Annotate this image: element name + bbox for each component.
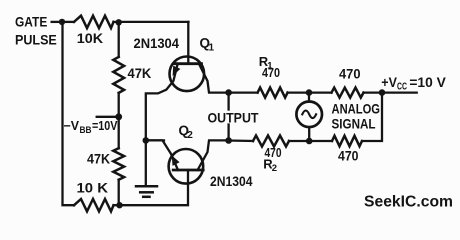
node -Vbb tap <box>115 113 122 120</box>
svg-text:=10 V: =10 V <box>409 74 446 90</box>
node Vcc <box>379 89 386 96</box>
resistor 47K upper <box>113 57 124 93</box>
svg-text:470: 470 <box>265 145 282 160</box>
svg-text:2N1304: 2N1304 <box>134 36 180 51</box>
wire source bottom lead <box>308 127 310 141</box>
wire Q2 emitter horizontal <box>146 139 164 141</box>
node source bottom <box>306 138 313 145</box>
svg-text:BB: BB <box>80 125 92 135</box>
wire top rail right <box>119 21 189 23</box>
node source top <box>306 89 313 96</box>
label +Vcc=10V <box>381 74 446 93</box>
svg-text:2: 2 <box>187 130 193 141</box>
resistor R2 470 <box>253 136 289 147</box>
wire 47K upper top lead <box>118 22 120 57</box>
wire gate stub <box>51 21 63 23</box>
label R1 <box>259 54 274 72</box>
source analog signal circle <box>296 102 322 128</box>
wire top rail left <box>62 21 74 23</box>
transistor Q1 circle <box>170 57 205 92</box>
wire Q1 base lead <box>187 22 189 64</box>
wire output link upper <box>227 93 229 110</box>
transistor Q1 collector lead <box>199 64 229 93</box>
resistor R 10K top <box>74 16 114 28</box>
wire source top lead <box>308 93 310 102</box>
wire Vcc stub <box>382 91 417 93</box>
wire to Vcc node <box>364 91 383 93</box>
wire 47K lower bottom lead <box>118 180 120 206</box>
wire top row to 470 <box>309 91 332 93</box>
wire 47K upper bottom lead <box>118 93 120 148</box>
node bottom of 47K <box>116 202 122 208</box>
node output bottom <box>225 137 232 144</box>
transistor Q1 emitter lead <box>146 64 178 187</box>
svg-text:2N1304: 2N1304 <box>210 174 253 189</box>
transistor Q1 emitter arrow <box>173 66 181 76</box>
transistor Q2 base bar <box>173 169 203 172</box>
transistor Q2 collector lead <box>198 140 229 170</box>
label R2 <box>263 157 277 175</box>
svg-text:CC: CC <box>397 82 407 93</box>
svg-text:2: 2 <box>272 163 277 174</box>
svg-text:470: 470 <box>338 149 359 164</box>
svg-text:−V: −V <box>64 119 80 133</box>
svg-text:+V: +V <box>381 74 397 90</box>
svg-text:OUTPUT: OUTPUT <box>208 109 259 125</box>
wire bottom rail mid <box>114 204 120 206</box>
resistor R1 470 <box>258 88 288 98</box>
wire left rail <box>63 22 75 205</box>
svg-text:1: 1 <box>209 43 215 54</box>
wire output link lower <box>227 125 229 141</box>
wire bottom rail to Q2 base <box>120 170 189 205</box>
wire R1 right <box>288 91 309 93</box>
wire right rail <box>362 93 382 141</box>
transistor Q1 base bar <box>174 62 202 65</box>
wire -Vbb stub <box>97 116 119 118</box>
wire R1 left <box>229 91 258 93</box>
svg-text:470: 470 <box>262 65 280 80</box>
label GATE PULSE <box>15 13 57 47</box>
svg-text:PULSE: PULSE <box>15 31 57 47</box>
svg-text:SeekIC.com: SeekIC.com <box>364 194 453 211</box>
resistor 470 bottom right <box>332 136 362 146</box>
svg-text:ANALOG: ANALOG <box>332 100 381 116</box>
transistor Q2 circle <box>169 149 204 184</box>
transistor Q2 emitter lead <box>146 140 178 170</box>
resistor 47K lower <box>113 148 124 180</box>
label Q1 <box>200 36 215 54</box>
svg-text:10K: 10K <box>77 30 103 46</box>
wire bottom row mid <box>309 140 332 142</box>
resistor 10K bottom <box>74 199 114 211</box>
label Q2 <box>179 123 194 141</box>
svg-text:47K: 47K <box>128 66 152 81</box>
svg-text:SIGNAL: SIGNAL <box>332 115 376 131</box>
resistor 470 top right <box>332 88 364 98</box>
node gate-pulse input <box>59 19 65 25</box>
wire R2 to output <box>229 139 253 142</box>
transistor Q2 emitter arrow <box>172 155 180 166</box>
node emitter junction <box>143 137 150 144</box>
svg-text:470: 470 <box>339 66 361 81</box>
svg-text:GATE: GATE <box>15 13 47 29</box>
wire top rail mid <box>114 21 119 23</box>
node top of 47K <box>116 19 122 25</box>
svg-text:47K: 47K <box>87 152 110 167</box>
svg-text:=10V: =10V <box>92 119 118 133</box>
node output top <box>225 89 232 96</box>
svg-text:10 K: 10 K <box>77 181 109 196</box>
ground <box>136 186 157 197</box>
label -Vbb=10V <box>64 119 119 135</box>
wire bottom row left of source <box>289 140 309 142</box>
source sine symbol <box>302 111 316 119</box>
label ANALOG SIGNAL <box>332 100 381 131</box>
